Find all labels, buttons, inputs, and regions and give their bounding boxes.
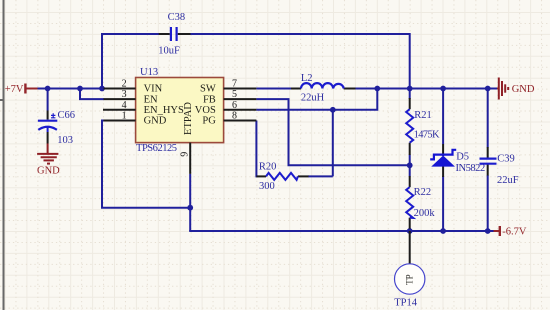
svg-text:EN: EN <box>144 94 158 105</box>
junction R22/TP14 tap on -6.7V rail <box>407 228 413 234</box>
svg-text:+7V: +7V <box>5 84 24 95</box>
test point TP14 <box>394 231 425 309</box>
U13 pins 2,3,4,1 <box>103 89 136 121</box>
svg-text:200k: 200k <box>414 208 436 219</box>
junction R21/C38 tap on SW node <box>407 86 413 92</box>
svg-text:R22: R22 <box>414 187 432 198</box>
wire EN branch <box>80 89 104 100</box>
svg-text:D5: D5 <box>456 151 469 162</box>
svg-text:10uF: 10uF <box>158 46 180 57</box>
svg-text:1475K: 1475K <box>414 129 440 140</box>
wire VOS route <box>256 89 377 110</box>
svg-text:R20: R20 <box>259 162 277 173</box>
capacitor C66 (polarized) <box>38 110 75 146</box>
wire C66 branch down <box>47 89 49 111</box>
svg-text:22uH: 22uH <box>301 93 325 104</box>
wire C39 top <box>487 89 489 148</box>
wire FB route <box>256 99 409 165</box>
svg-text:4: 4 <box>122 100 127 111</box>
svg-text:VOS: VOS <box>195 105 216 116</box>
wire C38 branch up <box>101 33 103 89</box>
svg-text:8: 8 <box>232 111 237 122</box>
junction EN tap on +7V rail <box>77 86 83 92</box>
svg-text:2: 2 <box>122 79 127 90</box>
junction D5 tap on -6.7V rail <box>440 228 446 234</box>
junction FB tap between R21 and R22 <box>407 162 413 168</box>
wire R20 right to branch <box>308 175 333 177</box>
wire +7V rail to VIN <box>37 88 104 90</box>
wire GND pin1 route <box>102 121 190 208</box>
svg-text:1: 1 <box>122 111 127 122</box>
svg-text:TP14: TP14 <box>394 298 418 309</box>
svg-text:GND: GND <box>144 116 167 127</box>
junction VOS tap on SW node <box>374 86 380 92</box>
svg-text:TP: TP <box>404 274 414 285</box>
IC U13 body <box>136 78 224 143</box>
svg-text:7: 7 <box>232 79 237 90</box>
junction C39 tap on SW node <box>485 86 491 92</box>
svg-text:ETPAD: ETPAD <box>183 102 194 135</box>
wire D5 top <box>442 89 444 145</box>
svg-text:GND: GND <box>512 84 535 95</box>
U13 pins 7,5,6,8 <box>224 89 257 121</box>
resistor R22 <box>406 176 435 229</box>
capacitor C39 <box>480 147 519 186</box>
svg-text:EN_HYS: EN_HYS <box>144 105 184 116</box>
wire C39 bottom <box>487 175 489 231</box>
junction GND pin and ETPAD wire <box>187 205 193 211</box>
wire PG down to R20 <box>256 121 257 177</box>
wire ETPAD down to rail <box>189 174 191 231</box>
junction C38 tap on +7V rail <box>99 86 105 92</box>
svg-text:300: 300 <box>259 181 275 192</box>
svg-text:U13: U13 <box>140 67 158 78</box>
svg-text:C66: C66 <box>58 110 76 121</box>
junction C39 tap on -6.7V rail <box>485 228 491 234</box>
svg-text:R21: R21 <box>414 110 432 121</box>
diode D5 schottky <box>430 144 485 177</box>
wire C38 right to SW node <box>190 34 410 89</box>
svg-text:TPS62125: TPS62125 <box>136 143 177 154</box>
wire D5 bottom <box>442 176 444 231</box>
junction C66 tap on +7V rail <box>45 86 51 92</box>
ground GND (top right rotated) <box>497 78 508 100</box>
wire R20 branch down <box>332 110 334 177</box>
svg-text:5: 5 <box>232 89 237 100</box>
wire bottom rail <box>189 230 493 232</box>
resistor R21 <box>406 98 440 155</box>
svg-text:9: 9 <box>179 152 190 157</box>
svg-text:VIN: VIN <box>144 84 163 95</box>
svg-text:3: 3 <box>122 89 127 100</box>
svg-text:L2: L2 <box>301 73 313 84</box>
power port -6.7V <box>494 226 527 237</box>
svg-text:GND: GND <box>37 166 60 177</box>
wire R21 top <box>409 89 411 100</box>
inductor L2 <box>291 73 356 104</box>
wire L2 to GND rail top <box>355 88 498 90</box>
svg-text:SW: SW <box>200 84 216 95</box>
svg-text:C39: C39 <box>497 154 515 165</box>
junction R20 tap on VOS wire <box>330 107 336 113</box>
U13 pin 9 ETPAD lead <box>189 143 191 174</box>
ground GND (left) <box>37 144 58 164</box>
sheet border edge <box>0 0 4 310</box>
svg-text:PG: PG <box>202 116 216 127</box>
wire R21 bottom R22 top <box>409 155 411 177</box>
wire R22 bottom <box>409 228 411 231</box>
svg-text:6: 6 <box>232 100 237 111</box>
svg-text:103: 103 <box>57 135 73 146</box>
svg-text:22uF: 22uF <box>497 175 519 186</box>
resistor R20 <box>256 162 308 193</box>
wire SW to L2 <box>256 88 291 90</box>
svg-text:C38: C38 <box>168 12 186 23</box>
capacitor C38 <box>158 12 190 57</box>
svg-text:FB: FB <box>203 94 216 105</box>
power port +7V <box>5 84 38 95</box>
wire C38 left <box>101 33 160 35</box>
junction D5 tap on SW node <box>440 86 446 92</box>
svg-text:-6.7V: -6.7V <box>502 226 527 237</box>
